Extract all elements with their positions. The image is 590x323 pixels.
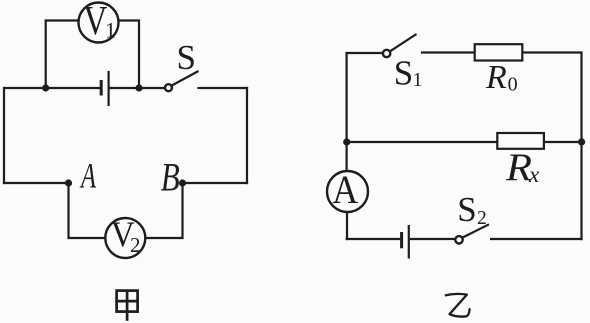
svg-text:A: A bbox=[80, 155, 97, 195]
label S2 bbox=[457, 190, 486, 229]
label Rx bbox=[505, 146, 540, 189]
switch S2 terminal circle bbox=[455, 236, 462, 243]
node: junction dot left of battery (V1 branch) bbox=[42, 84, 49, 91]
wire: switch fixed contact to top-right corner bbox=[198, 87, 249, 89]
svg-text:R: R bbox=[485, 59, 507, 96]
svg-text:0: 0 bbox=[508, 74, 518, 96]
switch S blade bbox=[172, 71, 199, 86]
wire: battery B2 to switch S2 bbox=[410, 238, 456, 240]
ammeter A circle bbox=[327, 171, 368, 212]
wire: left circuit right edge bbox=[246, 87, 248, 184]
node: junction dot right of battery (V1 branch) bbox=[135, 84, 142, 91]
svg-text:2: 2 bbox=[130, 233, 141, 257]
caption 甲 (left figure label) bbox=[117, 291, 138, 321]
svg-text:B: B bbox=[161, 154, 180, 199]
wire: V1 branch left riser bbox=[46, 21, 79, 89]
wire: right circuit top-left segment bbox=[347, 52, 384, 54]
node B dot bbox=[179, 179, 186, 186]
wire: right circuit left edge (top corner to ammeter) bbox=[346, 52, 348, 171]
wire: Rx row left segment bbox=[347, 141, 498, 143]
svg-text:S: S bbox=[457, 190, 476, 229]
wire: battery to switch S bbox=[110, 87, 166, 89]
voltmeter V2 label bbox=[111, 214, 141, 257]
svg-text:x: x bbox=[528, 162, 540, 187]
wire: Rx row right segment bbox=[544, 141, 582, 143]
svg-text:A: A bbox=[332, 167, 358, 212]
battery B1 short plate (negative) bbox=[100, 80, 103, 96]
wire: V2 right-and-up to B bbox=[145, 183, 182, 238]
wire: bottom row, corner to battery B2 bbox=[346, 238, 401, 240]
node: junction dot right (Rx row) bbox=[578, 138, 585, 145]
wire: left circuit left edge bbox=[3, 87, 5, 184]
wire: V1 branch right riser bbox=[119, 21, 140, 89]
wire: ammeter to bottom-left corner bbox=[346, 212, 348, 240]
svg-text:S: S bbox=[394, 53, 413, 92]
switch S1 terminal circle bbox=[383, 50, 390, 57]
node A dot bbox=[65, 179, 72, 186]
svg-text:2: 2 bbox=[477, 208, 487, 229]
wire: R0 to top-right corner bbox=[522, 51, 582, 53]
wire: S1 fixed contact to R0 bbox=[421, 51, 475, 53]
wire: right circuit right edge bbox=[580, 53, 582, 241]
svg-text:1: 1 bbox=[413, 69, 423, 91]
svg-text:S: S bbox=[177, 38, 196, 77]
label R0 bbox=[485, 59, 518, 96]
resistor Rx box bbox=[497, 133, 544, 149]
battery B2 long plate (positive) bbox=[408, 225, 410, 259]
wire: A down-and-right to V2 bbox=[69, 183, 106, 238]
voltmeter V1 circle bbox=[79, 3, 119, 43]
wire: bottom left segment (corner to A) bbox=[3, 182, 69, 184]
caption 乙 (right figure label) bbox=[446, 294, 470, 317]
node: junction dot left (Rx row) bbox=[343, 138, 350, 145]
svg-text:1: 1 bbox=[105, 18, 116, 43]
switch S terminal circle bbox=[165, 84, 172, 91]
battery B2 short plate (negative) bbox=[400, 232, 403, 248]
switch S1 blade bbox=[390, 34, 417, 51]
wire: left circuit main battery row, left segment bbox=[4, 87, 100, 89]
voltmeter V1 label bbox=[83, 0, 116, 43]
wire: bottom right segment (B to corner) bbox=[183, 182, 249, 184]
switch S2 blade bbox=[462, 224, 489, 237]
wire: S2 fixed contact to bottom-right corner bbox=[490, 238, 583, 240]
voltmeter V2 circle bbox=[105, 218, 145, 258]
battery B1 long plate (positive) bbox=[107, 71, 109, 106]
label S1 bbox=[394, 53, 423, 92]
resistor R0 box bbox=[475, 44, 523, 60]
